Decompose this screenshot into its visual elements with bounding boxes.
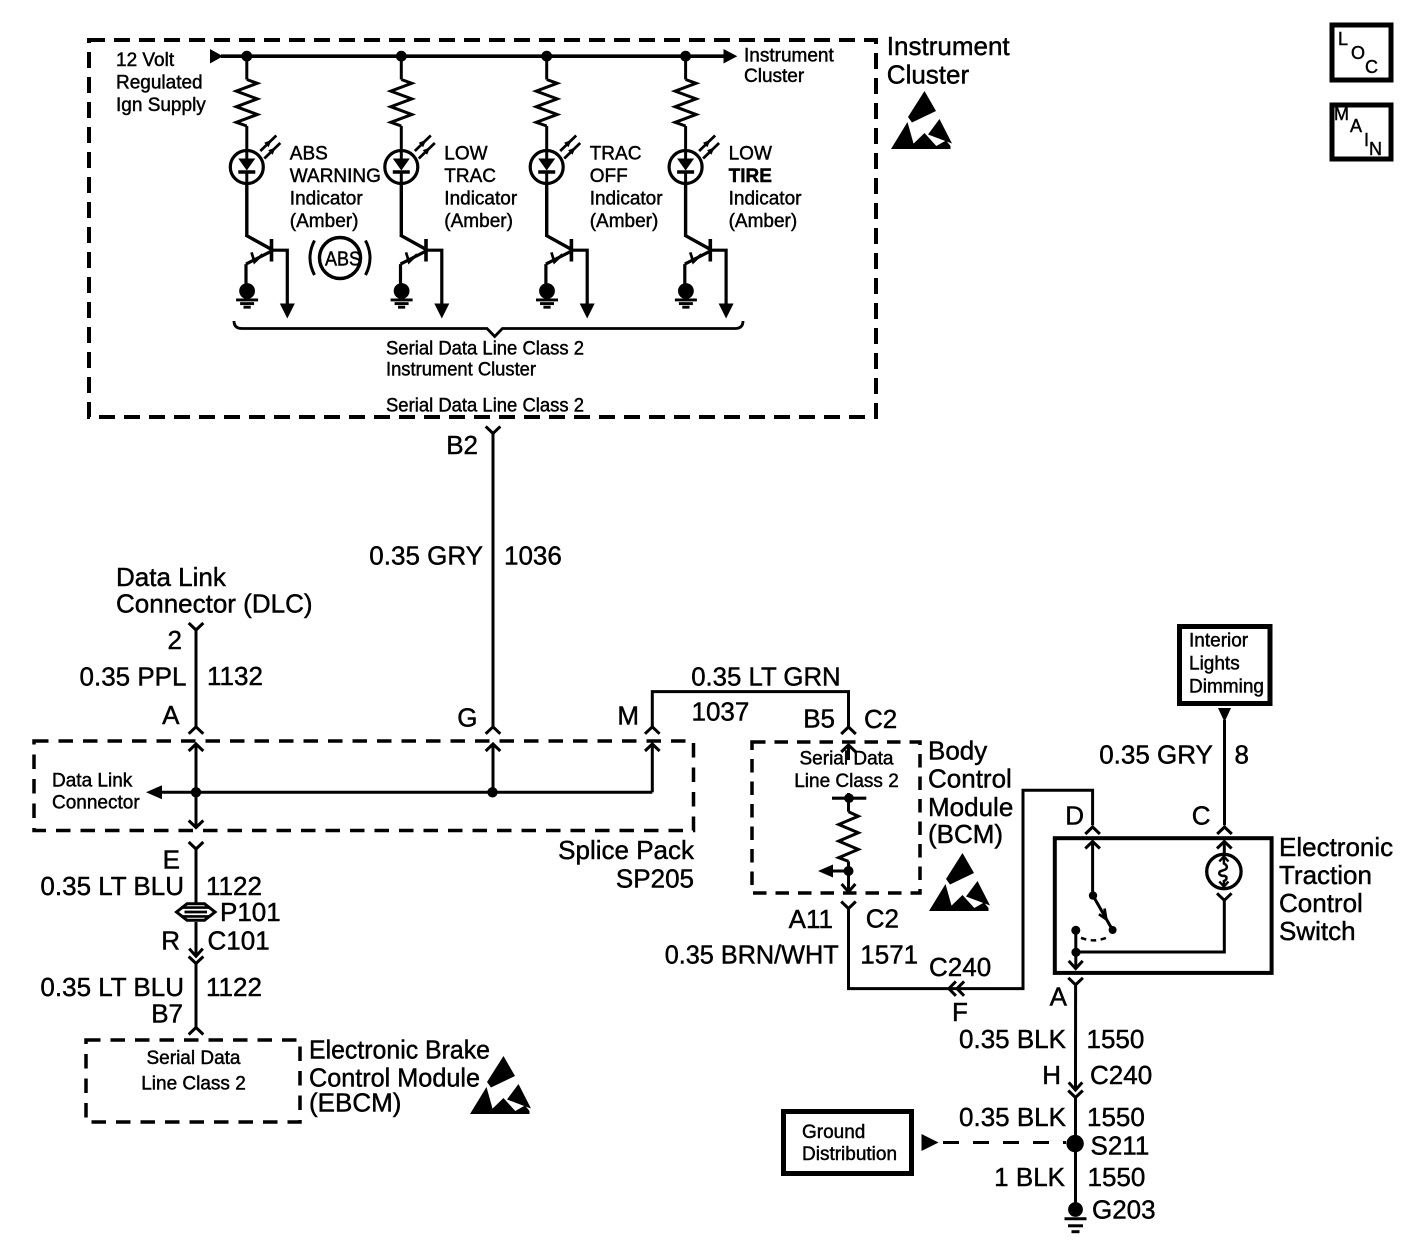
svg-text:Connector (DLC): Connector (DLC) — [116, 589, 313, 619]
transistor Q4 emitter arrow — [685, 251, 711, 264]
LED D1 emission arrows — [260, 136, 276, 152]
svg-text:S211: S211 — [1091, 1130, 1150, 1160]
svg-text:Body: Body — [928, 736, 987, 766]
svg-text:C240: C240 — [1090, 1060, 1152, 1090]
transistor Q3 emitter arrow — [546, 251, 572, 264]
wire lamp to switch output — [1217, 893, 1232, 900]
svg-text:Traction: Traction — [1279, 860, 1372, 890]
svg-text:Distribution: Distribution — [802, 1144, 897, 1165]
brace serial data line group — [234, 321, 743, 337]
svg-text:0.35 LT GRN: 0.35 LT GRN — [691, 662, 841, 692]
svg-text:C101: C101 — [208, 926, 270, 956]
svg-text:G: G — [457, 702, 477, 732]
svg-text:Indicator: Indicator — [590, 189, 664, 210]
switch contact lower — [1071, 926, 1080, 935]
svg-text:B5: B5 — [803, 704, 835, 734]
svg-text:A: A — [1350, 116, 1362, 136]
wire BCM internal pull-up top — [841, 745, 856, 752]
wire resistor R2 to LED D2 — [400, 126, 403, 152]
resistor BCM terminating — [839, 812, 859, 862]
svg-text:Splice Pack: Splice Pack — [558, 835, 695, 865]
switch travel dashed arc — [1081, 938, 1107, 941]
svg-text:(Amber): (Amber) — [444, 211, 513, 232]
svg-text:1122: 1122 — [206, 972, 262, 1002]
resistor R1 — [236, 80, 257, 127]
svg-text:0.35 BLK: 0.35 BLK — [959, 1024, 1067, 1054]
wire lamp branch — [1217, 842, 1232, 849]
wire splice pack internal vertical A-E — [189, 744, 204, 751]
svg-text:1132: 1132 — [207, 661, 263, 691]
svg-text:(Amber): (Amber) — [729, 211, 798, 232]
node junction BCM resistor bottom — [844, 866, 854, 876]
svg-text:(EBCM): (EBCM) — [309, 1088, 401, 1118]
wire interior lights to switch pin C — [1218, 708, 1231, 722]
svg-text:Electronic Brake: Electronic Brake — [309, 1035, 490, 1065]
ABS telltale symbol — [320, 238, 361, 279]
node junction on 12V bus (ABS WARNING branch) — [241, 51, 252, 62]
svg-text:M: M — [1334, 104, 1349, 124]
wire 0.35 BLK 1550 (lower) — [1074, 1098, 1077, 1204]
wire switch lower contact to A — [1074, 930, 1077, 968]
svg-text:Serial Data Line Class 2: Serial Data Line Class 2 — [386, 338, 584, 360]
svg-text:Cluster: Cluster — [887, 60, 970, 90]
wire collector output arrow of Q4 to serial data — [719, 304, 734, 319]
svg-text:1037: 1037 — [692, 697, 750, 727]
transistor Q1 emitter arrow — [246, 251, 272, 264]
LED D2 emission arrows — [415, 136, 431, 152]
svg-text:Switch: Switch — [1279, 916, 1356, 946]
wire 0.35 LT BLU 1122 (lower) — [195, 964, 198, 1028]
svg-text:8: 8 — [1235, 740, 1249, 770]
svg-text:WARNING: WARNING — [290, 166, 381, 187]
BCM module box — [752, 742, 920, 893]
svg-text:TRAC: TRAC — [444, 166, 496, 187]
wire resistor R1 to LED D1 — [245, 126, 248, 152]
svg-text:R: R — [161, 926, 180, 956]
svg-text:Ign Supply: Ign Supply — [116, 95, 206, 116]
node junction splice on G wire — [487, 787, 497, 797]
wire resistor R3 to LED D3 — [545, 126, 548, 152]
svg-text:0.35 BLK: 0.35 BLK — [959, 1102, 1067, 1132]
svg-text:B7: B7 — [151, 998, 183, 1028]
legend box MAIN — [1332, 105, 1391, 159]
resistor R4 — [675, 80, 696, 127]
svg-text:1036: 1036 — [504, 540, 562, 570]
svg-text:Electronic: Electronic — [1279, 832, 1393, 862]
svg-text:Control: Control — [928, 764, 1012, 794]
svg-text:Module: Module — [928, 792, 1013, 822]
LED D3 TRAC OFF — [530, 151, 563, 184]
svg-text:0.35 GRY: 0.35 GRY — [369, 540, 483, 570]
svg-text:LOW: LOW — [444, 144, 487, 165]
svg-text:2: 2 — [168, 625, 182, 655]
wire bus to resistor R2 — [400, 56, 403, 79]
ground (emitter of Q1) — [239, 283, 255, 299]
svg-text:A11: A11 — [789, 904, 833, 934]
LED D4 LOW TIRE — [669, 151, 702, 184]
transistor Q2 — [401, 236, 426, 250]
svg-text:12 Volt: 12 Volt — [116, 50, 175, 71]
svg-text:Data Link: Data Link — [116, 562, 227, 592]
wire bus to resistor R3 — [545, 56, 548, 79]
svg-text:C2: C2 — [866, 904, 899, 934]
svg-text:(Amber): (Amber) — [290, 211, 359, 232]
LED D4 emission arrows — [699, 136, 715, 152]
splice S211 — [1066, 1135, 1083, 1152]
wire bus to resistor R1 — [245, 56, 248, 79]
svg-text:P101: P101 — [220, 897, 281, 927]
ESD symbol BCM — [929, 853, 990, 911]
svg-text:Indicator: Indicator — [444, 189, 518, 210]
svg-text:H: H — [1042, 1060, 1061, 1090]
node junction on 12V bus (LOW TIRE branch) — [680, 51, 691, 62]
svg-text:0.35 LT BLU: 0.35 LT BLU — [40, 871, 184, 901]
ESD symbol instrument cluster — [891, 91, 952, 149]
wire splice pack internal vertical G — [486, 744, 501, 751]
svg-text:Indicator: Indicator — [290, 189, 364, 210]
LED D1 ABS WARNING — [230, 151, 263, 184]
svg-text:G203: G203 — [1092, 1195, 1156, 1225]
svg-text:A: A — [162, 700, 180, 730]
svg-text:N: N — [1369, 139, 1382, 159]
svg-text:O: O — [1351, 43, 1365, 63]
svg-text:Cluster: Cluster — [744, 66, 805, 87]
EBCM module box — [86, 1040, 300, 1122]
wire LED D1 to transistor Q1 — [245, 183, 248, 237]
interior lights dimming box — [1180, 627, 1271, 704]
node junction on 12V bus (LOW TRAC branch) — [396, 51, 407, 62]
wire 0.35 BRN/WHT 1571 — [849, 790, 1093, 988]
svg-text:Dimming: Dimming — [1189, 677, 1264, 698]
switch contact upper — [1089, 891, 1097, 899]
wire BCM exit arrow — [842, 884, 856, 892]
LED D3 emission arrows — [560, 136, 576, 152]
wire resistor R4 to LED D4 — [684, 126, 687, 152]
wire 0.35 GRY 1036 — [492, 433, 495, 727]
transistor Q1 — [247, 236, 272, 250]
node junction switch output — [1071, 948, 1080, 957]
svg-text:Instrument: Instrument — [744, 46, 834, 67]
svg-text:Ground: Ground — [802, 1122, 865, 1143]
svg-text:F: F — [952, 997, 968, 1027]
svg-text:Indicator: Indicator — [729, 189, 803, 210]
svg-text:C240: C240 — [929, 952, 991, 982]
svg-text:Lights: Lights — [1189, 654, 1240, 675]
switch blade — [1093, 896, 1112, 929]
LED D2 LOW TRAC — [385, 151, 418, 184]
wire collector output arrow of Q3 to serial data — [580, 304, 595, 319]
svg-text:0.35 BRN/WHT: 0.35 BRN/WHT — [665, 939, 839, 969]
svg-text:Line Class 2: Line Class 2 — [794, 771, 899, 792]
ground distribution box — [784, 1112, 912, 1174]
svg-text:LOW: LOW — [729, 144, 772, 165]
node junction on 12V bus (TRAC OFF branch) — [541, 51, 552, 62]
wire LED D4 to transistor Q4 — [684, 183, 687, 237]
wire 0.35 BLK 1550 (upper) — [1074, 985, 1077, 1078]
wire switch exit arrow — [1069, 961, 1083, 969]
wire collector output arrow of Q2 to serial data — [434, 304, 449, 319]
wire collector output arrow of Q1 to serial data — [280, 304, 295, 319]
instrument cluster module box — [89, 40, 876, 417]
svg-text:SP205: SP205 — [616, 864, 694, 894]
connector C101 pins R — [195, 922, 198, 956]
svg-text:Instrument Cluster: Instrument Cluster — [386, 359, 536, 381]
svg-text:1571: 1571 — [860, 939, 918, 969]
ground (emitter of Q2) — [394, 283, 410, 299]
svg-text:1550: 1550 — [1088, 1162, 1146, 1192]
splice pack SP205 box — [34, 741, 694, 831]
svg-text:Regulated: Regulated — [116, 73, 203, 94]
svg-text:1550: 1550 — [1087, 1102, 1145, 1132]
resistor R3 — [536, 80, 557, 127]
svg-text:OFF: OFF — [590, 166, 628, 187]
svg-text:Connector: Connector — [52, 793, 140, 814]
svg-text:M: M — [617, 701, 639, 731]
legend box LOC — [1332, 25, 1391, 80]
switch contact moving end — [1109, 926, 1117, 934]
transistor Q3 — [547, 236, 572, 250]
svg-text:1550: 1550 — [1087, 1024, 1145, 1054]
svg-text:TIRE: TIRE — [729, 166, 772, 187]
svg-text:Serial Data Line Class 2: Serial Data Line Class 2 — [386, 395, 584, 417]
wire switch internal D — [1085, 842, 1100, 849]
wire LED D3 to transistor Q3 — [545, 183, 548, 237]
svg-text:(Amber): (Amber) — [590, 211, 659, 232]
svg-text:TRAC: TRAC — [590, 144, 642, 165]
ground (emitter of Q3) — [539, 283, 555, 299]
inline connector P101 — [177, 904, 216, 920]
svg-text:Instrument: Instrument — [887, 31, 1011, 61]
pin A11 C2 of BCM — [841, 902, 856, 909]
svg-text:(BCM): (BCM) — [928, 819, 1003, 849]
svg-text:ABS: ABS — [325, 249, 361, 271]
ground (emitter of Q4) — [678, 283, 694, 299]
svg-text:C: C — [1365, 57, 1378, 77]
lamp illumination (switch backlight) — [1207, 854, 1241, 888]
svg-text:0.35 PPL: 0.35 PPL — [80, 661, 187, 691]
svg-text:ABS: ABS — [290, 144, 328, 165]
svg-text:D: D — [1065, 801, 1084, 831]
svg-text:Serial Data: Serial Data — [800, 749, 894, 770]
svg-text:1 BLK: 1 BLK — [994, 1162, 1065, 1192]
svg-text:B2: B2 — [446, 430, 478, 460]
ESD symbol EBCM — [470, 1056, 531, 1114]
svg-text:0.35 GRY: 0.35 GRY — [1099, 740, 1213, 770]
svg-text:Serial Data: Serial Data — [147, 1048, 241, 1069]
wire splice pack internal horizontal — [159, 791, 652, 794]
svg-text:Data Link: Data Link — [52, 771, 133, 792]
node junction splice on DLC wire — [191, 787, 201, 797]
wire bus to resistor R4 — [684, 56, 687, 79]
wire 0.35 PPL 1132 — [195, 630, 198, 726]
svg-text:Line Class 2: Line Class 2 — [141, 1074, 246, 1095]
wire 0.35 LT BLU 1122 (upper) — [195, 849, 198, 903]
resistor R2 — [391, 80, 412, 127]
ground G203 — [1068, 1202, 1083, 1217]
svg-text:A: A — [1050, 982, 1068, 1012]
svg-text:Interior: Interior — [1189, 631, 1249, 652]
wire splice pack internal vertical M — [645, 744, 660, 751]
svg-text:Control: Control — [1279, 888, 1363, 918]
wire BCM internal to left arrow — [831, 870, 849, 873]
svg-text:L: L — [1338, 29, 1348, 49]
transistor Q4 — [686, 236, 711, 250]
electronic traction control switch box — [1055, 838, 1272, 973]
svg-text:C2: C2 — [864, 704, 897, 734]
svg-text:C: C — [1192, 801, 1211, 831]
wire 12V ignition bus — [210, 49, 223, 64]
transistor Q2 emitter arrow — [401, 251, 427, 264]
wire LED D2 to transistor Q2 — [400, 183, 403, 237]
wire ground distribution reference (dashed) — [922, 1134, 939, 1151]
wire 0.35 LT GRN 1037 — [652, 692, 848, 727]
